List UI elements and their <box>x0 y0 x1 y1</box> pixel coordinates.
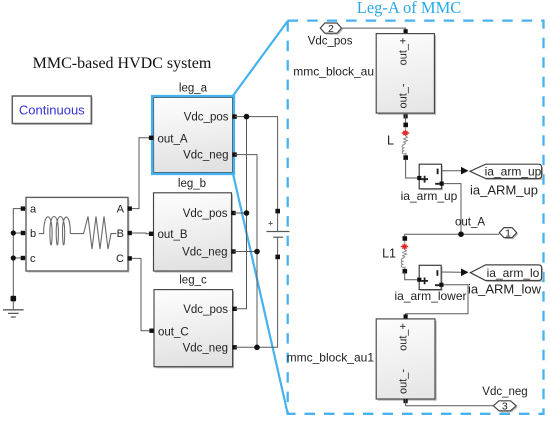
port leg_b out_B <box>149 232 153 236</box>
port leg_c Vdc_neg <box>232 345 236 349</box>
svg-text:Continuous: Continuous <box>19 103 85 118</box>
wire Vdc_neg bus <box>234 155 278 348</box>
signal wire to goto ia_arm_lo <box>441 271 462 273</box>
svg-text:a: a <box>30 204 37 216</box>
svg-text:leg_c: leg_c <box>179 275 207 287</box>
junction neg leg_b <box>254 249 260 255</box>
wire node A to outport 1 <box>405 234 500 240</box>
subsystem leg_c <box>154 275 234 369</box>
port leg_a Vdc_neg <box>232 152 236 156</box>
wire B to out_B <box>128 232 154 235</box>
callout line lower <box>233 174 288 414</box>
svg-text:leg_b: leg_b <box>178 178 206 190</box>
source icon resistor zigzag <box>70 216 116 249</box>
goto tag ia_arm_up <box>470 164 543 180</box>
svg-text:mmc_block_au: mmc_block_au <box>293 65 374 79</box>
ground <box>3 301 24 317</box>
svg-text:MMC-based HVDC system: MMC-based HVDC system <box>33 55 212 72</box>
three-phase source block <box>26 197 130 272</box>
arrowhead lower <box>461 269 469 277</box>
svg-text:out_C: out_C <box>158 326 189 338</box>
port leg_c Vdc_pos <box>232 307 236 311</box>
arrowhead <box>461 167 469 175</box>
svg-text:Vdc_pos: Vdc_pos <box>308 36 353 48</box>
wire mmc_block_au1 to outport 3 <box>406 399 494 406</box>
svg-text:mmc_block_au1: mmc_block_au1 <box>287 351 375 365</box>
powergui block Continuous <box>12 96 93 125</box>
current measurement ia_arm_up <box>419 164 443 190</box>
svg-text:Leg-A of MMC: Leg-A of MMC <box>357 0 462 17</box>
port mmc_block_au1 out <box>404 399 408 403</box>
svg-text:Vdc_neg: Vdc_neg <box>183 150 228 162</box>
svg-text:Vdc_pos: Vdc_pos <box>184 112 229 124</box>
svg-text:out_-: out_- <box>398 369 410 394</box>
DC capacitor <box>267 209 290 259</box>
svg-text:B: B <box>117 228 124 240</box>
port leg_b Vdc_pos <box>231 211 235 215</box>
svg-text:out_+: out_+ <box>398 38 410 66</box>
svg-text:Vdc_neg: Vdc_neg <box>183 342 228 354</box>
subsystem leg_b <box>154 178 234 273</box>
port a <box>21 206 25 210</box>
subsystem leg_a <box>152 83 234 175</box>
svg-text:C: C <box>116 253 124 265</box>
port ia_arm_lower plus <box>417 278 421 282</box>
svg-text:2: 2 <box>328 23 334 35</box>
svg-text:out_A: out_A <box>158 133 188 145</box>
svg-text:out_A: out_A <box>455 217 485 229</box>
port ia_arm_lower minus <box>439 283 443 287</box>
port c <box>21 256 25 260</box>
svg-text:out_+: out_+ <box>398 323 410 351</box>
subsystem mmc_block_au1 <box>376 319 436 401</box>
port leg_a out_A <box>149 136 153 140</box>
svg-text:ia_ARM_up: ia_ARM_up <box>470 183 538 198</box>
subsystem mmc_block_au <box>376 34 436 115</box>
zoom panel dashed border <box>288 21 544 414</box>
wire L1 to ia_arm_lower <box>405 272 420 279</box>
junction node A <box>458 231 464 237</box>
port b <box>21 231 25 235</box>
svg-text:Vdc_neg: Vdc_neg <box>482 386 527 398</box>
wire Vdc_pos bus <box>234 117 278 309</box>
svg-text:leg_a: leg_a <box>179 83 208 95</box>
callout line upper <box>232 21 288 97</box>
port leg_c out_C <box>149 329 153 333</box>
svg-text:1: 1 <box>505 227 511 239</box>
junction c <box>11 255 16 260</box>
port B <box>128 231 132 235</box>
junction pos leg_a <box>244 114 250 120</box>
svg-text:3: 3 <box>502 401 508 413</box>
svg-text:b: b <box>30 228 36 240</box>
svg-text:L1: L1 <box>382 247 396 261</box>
wire ia_arm_lower minus to mmc_block_au1 <box>406 285 468 319</box>
port leg_b Vdc_neg <box>231 249 235 253</box>
port mmc_block_au1 in <box>404 314 408 318</box>
junction pos leg_b <box>244 210 250 216</box>
svg-text:ia_arm_lower: ia_arm_lower <box>394 289 466 303</box>
svg-text:ia_arm_up: ia_arm_up <box>401 189 458 203</box>
ground port <box>11 296 17 302</box>
port leg_a Vdc_pos <box>232 114 236 118</box>
wire abc common bus <box>13 209 26 298</box>
wire L to ia_arm_up <box>406 160 420 179</box>
svg-text:+: + <box>268 219 273 229</box>
svg-text:Vdc_neg: Vdc_neg <box>182 247 227 259</box>
junction neg leg_c <box>254 345 260 351</box>
junction b <box>11 230 16 235</box>
outport 3 <box>493 401 517 413</box>
outport 1 <box>499 227 518 239</box>
svg-text:out_B: out_B <box>158 229 188 241</box>
source icon inductor coil <box>39 216 71 245</box>
svg-text:A: A <box>117 204 125 216</box>
svg-text:Vdc_pos: Vdc_pos <box>183 208 228 220</box>
wire C to out_C <box>128 258 154 330</box>
svg-text:ia_ARM_low: ia_ARM_low <box>468 282 542 297</box>
port C <box>128 256 132 260</box>
inport 2 <box>320 23 343 35</box>
port ia_arm_up minus <box>440 182 444 186</box>
svg-text:ia_arm_lo: ia_arm_lo <box>487 266 540 280</box>
red star marker L <box>402 131 408 136</box>
port ia_arm_up plus <box>417 176 421 180</box>
port A <box>128 206 132 210</box>
wire inport2 to mmc_block_au <box>342 28 406 33</box>
goto tag ia_arm_lo <box>470 265 543 282</box>
svg-text:L: L <box>387 134 394 148</box>
wire A to out_A <box>128 138 154 209</box>
wire ia_arm_up minus to node A <box>444 184 461 235</box>
signal wire to goto ia_arm_up <box>442 170 463 172</box>
port mmc_block_au out <box>404 114 408 118</box>
current measurement ia_arm_lower <box>419 265 442 291</box>
red star marker L1 <box>401 244 407 249</box>
svg-text:c: c <box>30 253 36 265</box>
series RL branch L <box>402 123 408 160</box>
svg-text:ia_arm_up: ia_arm_up <box>485 165 542 179</box>
port mmc_block_au in <box>404 29 408 33</box>
svg-text:out_-: out_- <box>398 83 410 108</box>
svg-text:Vdc_pos: Vdc_pos <box>183 304 228 316</box>
series RL branch L1 <box>401 236 407 273</box>
wire block to L branch <box>405 113 407 126</box>
